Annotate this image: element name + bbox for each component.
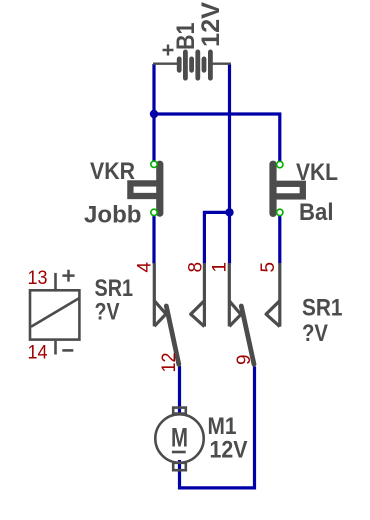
svg-text:13: 13: [28, 268, 48, 289]
svg-text:SR1: SR1: [302, 295, 343, 322]
svg-text:?V: ?V: [302, 320, 328, 347]
contact lead pin 5: [278, 263, 281, 327]
contact triangle pin 1: [229, 301, 241, 327]
contact triangle pin 5: [266, 301, 280, 327]
wire: right vertical below VKL to contact 5: [278, 216, 281, 264]
svg-text:14: 14: [28, 343, 48, 364]
coil plus sign: [62, 270, 74, 282]
svg-text:9: 9: [234, 354, 255, 365]
pin circle VKL bottom: [277, 209, 283, 215]
relay coil top stub: [54, 273, 57, 289]
svg-text:8: 8: [186, 262, 207, 273]
contact arm 4-12: [166, 306, 179, 364]
svg-text:VKL: VKL: [296, 159, 338, 186]
svg-text:1: 1: [210, 262, 231, 273]
wire: battery positive lead down-left vertical: [152, 64, 155, 161]
battery B1 leads: [153, 63, 231, 65]
svg-text:M: M: [171, 423, 188, 453]
wire: mid horizontal to contact 8 branch: [204, 212, 229, 263]
wire: top horizontal from junction to right branch and down to VKL: [154, 114, 280, 161]
svg-text:12V: 12V: [197, 2, 225, 47]
switch VKL bar: [269, 164, 276, 213]
junction dot A: [150, 110, 158, 118]
pin circle VKL top: [277, 161, 283, 167]
contact lead pin 1: [228, 263, 231, 326]
switch VKR handle: [130, 183, 159, 196]
motor top terminal: [173, 408, 186, 414]
contact triangle pin 4: [154, 301, 166, 327]
relay coil diagonal: [31, 298, 79, 327]
battery B1 plates: [179, 52, 210, 78]
motor M1 circle: [155, 414, 203, 462]
svg-text:VKR: VKR: [90, 158, 135, 185]
pin circle VKR bottom: [151, 209, 157, 215]
contact arm 1-9: [241, 306, 254, 364]
svg-text:B1: B1: [172, 22, 200, 50]
relay coil bottom stub: [54, 341, 57, 355]
contact triangle pin 8: [191, 301, 205, 327]
coil minus sign: [62, 349, 73, 352]
battery plus sign: [163, 45, 174, 56]
junction dot B: [225, 208, 233, 216]
motor underline: [172, 451, 186, 454]
svg-text:Bal: Bal: [299, 199, 334, 226]
contact lead pin 4: [153, 263, 156, 326]
wire: motor bottom to contact 9: [180, 367, 255, 488]
svg-text:12V: 12V: [210, 436, 248, 463]
motor bottom terminal: [173, 463, 186, 470]
wire: left vertical below VKR to contact 4: [152, 216, 155, 264]
wire: contact 12 down to motor: [178, 366, 181, 414]
svg-text:Jobb: Jobb: [84, 202, 142, 229]
switch VKR bar: [156, 164, 163, 213]
relay coil SR1 box: [30, 290, 79, 339]
pin circle VKR top: [151, 161, 157, 167]
svg-text:12: 12: [159, 353, 180, 373]
wire: battery negative lead down to contact 1: [228, 64, 231, 264]
svg-text:?V: ?V: [95, 299, 120, 326]
contact lead pin 8: [203, 263, 206, 327]
svg-text:5: 5: [258, 262, 279, 273]
svg-text:4: 4: [135, 262, 156, 273]
switch VKL handle: [273, 184, 303, 197]
